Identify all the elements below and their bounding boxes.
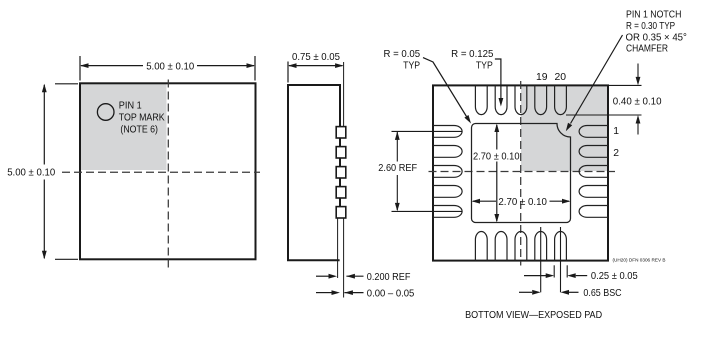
svg-text:0.200 REF: 0.200 REF [367, 272, 411, 283]
extension ticks slot 5 edges [553, 265, 555, 277]
svg-text:TYP: TYP [476, 60, 493, 71]
package body outline (top view) [80, 83, 256, 259]
svg-text:0.40 ± 0.10: 0.40 ± 0.10 [613, 96, 662, 107]
exposed pad with pin 1 notch [472, 124, 571, 223]
right terminal slots [579, 126, 608, 218]
svg-text:(UH20) DFN 0306 REV B: (UH20) DFN 0306 REV B [613, 258, 666, 263]
svg-text:PIN 1 NOTCH: PIN 1 NOTCH [626, 9, 681, 20]
svg-text:OR 0.35 × 45°: OR 0.35 × 45° [626, 32, 687, 43]
extension lines slot 4/5 centers [540, 227, 542, 292]
svg-text:CHAMFER: CHAMFER [626, 43, 668, 54]
svg-text:2.70 ± 0.10: 2.70 ± 0.10 [473, 152, 520, 163]
svg-text:5.00 ± 0.10: 5.00 ± 0.10 [7, 168, 55, 179]
dimension 2.70 +/-0.10 pad horizontal [473, 200, 496, 202]
terminal plane line (side view) [343, 62, 345, 127]
svg-text:0.65 BSC: 0.65 BSC [583, 288, 622, 299]
svg-text:TYP: TYP [403, 60, 420, 71]
vertical centerline (top view) [167, 80, 169, 269]
horizontal centerline (top view) [62, 171, 260, 173]
dimension 0.40 +/-0.10 [566, 64, 642, 135]
svg-text:R = 0.125: R = 0.125 [451, 49, 493, 60]
pin 1 top mark circle [97, 104, 114, 121]
svg-text:(NOTE 6): (NOTE 6) [120, 125, 158, 136]
svg-text:0.00 – 0.05: 0.00 – 0.05 [367, 288, 415, 299]
svg-text:2: 2 [613, 148, 619, 159]
shaded pin-1 quadrant (top view) [81, 84, 167, 170]
horizontal centerline (bottom view) [429, 171, 616, 173]
dimension 0.200 REF [316, 275, 329, 277]
svg-text:PIN 1: PIN 1 [119, 100, 142, 111]
dimension 0.65 BSC [519, 291, 532, 293]
bottom terminal slots [475, 231, 566, 260]
dimension 0.25 +/-0.05 [524, 275, 546, 277]
package body outline (side view) [288, 85, 340, 260]
svg-text:1: 1 [613, 126, 619, 137]
dimension 0.75 +/-0.05 (side view) [288, 62, 343, 83]
svg-text:BOTTOM VIEW—EXPOSED PAD: BOTTOM VIEW—EXPOSED PAD [465, 310, 602, 321]
vertical centerline (bottom view) [520, 81, 522, 266]
lead links (side view) [339, 138, 341, 208]
dimension 5.00 +/-0.10 left height [44, 84, 78, 259]
svg-text:R = 0.05: R = 0.05 [384, 49, 421, 60]
dimension 2.70 +/-0.10 pad vertical [496, 125, 498, 150]
left terminal slots [433, 126, 462, 218]
svg-text:0.75 ± 0.05: 0.75 ± 0.05 [292, 52, 340, 63]
dimension 5.00 +/-0.10 top width [80, 56, 255, 81]
dimension 0.00 - 0.05 [316, 292, 332, 294]
svg-text:19: 19 [536, 72, 548, 83]
svg-text:0.25 ± 0.05: 0.25 ± 0.05 [591, 271, 638, 282]
svg-text:2.70 ± 0.10: 2.70 ± 0.10 [498, 197, 547, 208]
svg-text:2.60 REF: 2.60 REF [378, 163, 417, 174]
dimension 2.60 REF [392, 131, 463, 211]
svg-text:TOP MARK: TOP MARK [119, 113, 165, 124]
shaded pin-1 quadrant (bottom view) [521, 87, 607, 172]
svg-text:5.00 ± 0.10: 5.00 ± 0.10 [146, 61, 194, 72]
svg-text:R = 0.30 TYP: R = 0.30 TYP [626, 21, 675, 32]
top terminal slots [475, 85, 566, 114]
svg-text:20: 20 [555, 72, 567, 83]
package body outline (bottom view) [433, 85, 608, 260]
standoff extension line (side view) [337, 218, 339, 278]
terminal bumps (side view) [336, 127, 346, 218]
